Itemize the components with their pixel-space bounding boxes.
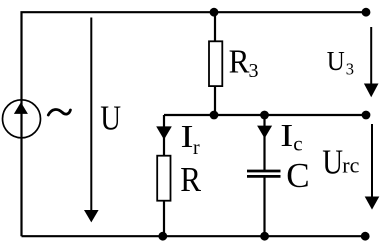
svg-text:U: U <box>100 98 121 137</box>
svg-text:3: 3 <box>249 60 259 82</box>
svg-text:3: 3 <box>346 59 354 78</box>
svg-text:I: I <box>280 117 293 153</box>
svg-text:r: r <box>193 137 200 159</box>
svg-text:c: c <box>293 131 302 155</box>
svg-text:U: U <box>327 46 345 76</box>
svg-text:C: C <box>286 156 309 195</box>
svg-text:I: I <box>181 118 194 154</box>
svg-text:U: U <box>322 143 343 182</box>
svg-text:R: R <box>229 44 250 81</box>
svg-text:R: R <box>180 160 201 199</box>
svg-text:rc: rc <box>342 153 359 178</box>
